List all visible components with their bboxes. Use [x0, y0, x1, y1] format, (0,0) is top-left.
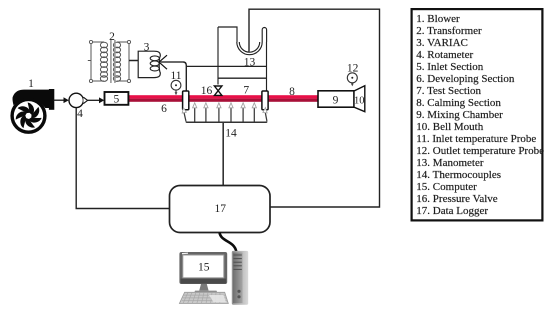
blower 1 body: [12, 89, 54, 132]
transformer 2: [88, 42, 129, 81]
svg-text:3. VARIAC: 3. VARIAC: [416, 37, 468, 49]
svg-text:6: 6: [161, 103, 167, 115]
svg-text:17: 17: [214, 203, 226, 215]
svg-text:14. Thermocouples: 14. Thermocouples: [416, 169, 501, 181]
wire variac to heater (down to left flange): [183, 62, 186, 91]
svg-text:15. Computer: 15. Computer: [416, 181, 477, 193]
svg-text:8: 8: [289, 86, 295, 98]
wire blower to rotameter: [53, 99, 64, 101]
svg-text:16. Pressure Valve: 16. Pressure Valve: [416, 193, 497, 205]
svg-text:12: 12: [347, 63, 359, 75]
computer 15 monitor: [179, 252, 227, 295]
legend box: [412, 9, 543, 220]
svg-text:9. Mixing Chamber: 9. Mixing Chamber: [416, 109, 503, 121]
wire data logger loop (right side up and over to manometer): [249, 9, 380, 207]
left flange of test section: [183, 91, 189, 110]
wire rotameter to data logger (left loop): [76, 108, 169, 209]
right flange of test section: [262, 91, 268, 110]
heater top line: [186, 65, 266, 67]
svg-text:8. Calming Section: 8. Calming Section: [416, 97, 501, 109]
svg-text:13. Manometer: 13. Manometer: [416, 157, 484, 169]
svg-text:13: 13: [244, 57, 256, 69]
svg-text:10. Bell Mouth: 10. Bell Mouth: [416, 121, 483, 133]
wire bus to data logger: [222, 122, 224, 185]
svg-text:6. Developing Section: 6. Developing Section: [416, 73, 515, 85]
svg-text:1. Blower: 1. Blower: [416, 13, 460, 25]
computer 15 tower: [232, 251, 248, 305]
svg-text:17. Data Logger: 17. Data Logger: [416, 205, 488, 217]
svg-text:4. Rotameter: 4. Rotameter: [416, 49, 473, 61]
manometer 13: [218, 27, 267, 91]
mixing chamber 9: [318, 91, 354, 107]
svg-text:3: 3: [144, 42, 150, 54]
inlet temperature probe 11: [171, 80, 181, 95]
svg-text:4: 4: [77, 108, 83, 120]
svg-text:7: 7: [243, 85, 249, 97]
svg-text:9: 9: [333, 94, 339, 106]
svg-text:5: 5: [114, 94, 120, 106]
red pipe run: developing section 6 / test section 7 / calming section 8: [128, 95, 318, 102]
cable data logger to computer: [220, 233, 237, 252]
inlet section box 5: [105, 92, 129, 105]
transformer 2 windings: [100, 42, 120, 81]
thermocouples 14: [184, 108, 267, 123]
svg-text:15: 15: [198, 262, 210, 274]
data logger 17: [170, 186, 271, 233]
svg-text:12. Outlet temperature Probe: 12. Outlet temperature Probe: [416, 145, 544, 157]
outlet temperature probe 12: [347, 73, 357, 87]
svg-text:2: 2: [109, 31, 115, 43]
heater second line: [218, 77, 267, 79]
transformer core: [111, 40, 115, 83]
svg-text:5. Inlet Section: 5. Inlet Section: [416, 61, 483, 73]
wire transformer to variac: [129, 60, 138, 62]
bell mouth 10: [354, 86, 365, 112]
svg-text:16: 16: [201, 85, 213, 97]
variac wiper arrow: [159, 55, 183, 69]
computer 15 keyboard: [179, 292, 228, 303]
wire rotameter to inlet box: [88, 99, 100, 101]
legend text: [416, 13, 544, 217]
svg-text:7. Test Section: 7. Test Section: [416, 85, 481, 97]
rotameter 4: [69, 93, 88, 107]
transformer corner nodes: [89, 40, 130, 82]
variac 3 winding: [150, 56, 159, 71]
VARIAC 3: [138, 51, 160, 77]
svg-text:2. Transformer: 2. Transformer: [416, 25, 482, 37]
svg-text:14: 14: [225, 128, 237, 140]
pressure valve 16: [214, 86, 222, 95]
svg-text:10: 10: [354, 95, 365, 106]
svg-text:11: 11: [170, 70, 181, 82]
thermocouple bus: [186, 121, 267, 122]
svg-text:1: 1: [28, 78, 34, 90]
svg-text:11. Inlet temperature Probe: 11. Inlet temperature Probe: [416, 133, 536, 145]
